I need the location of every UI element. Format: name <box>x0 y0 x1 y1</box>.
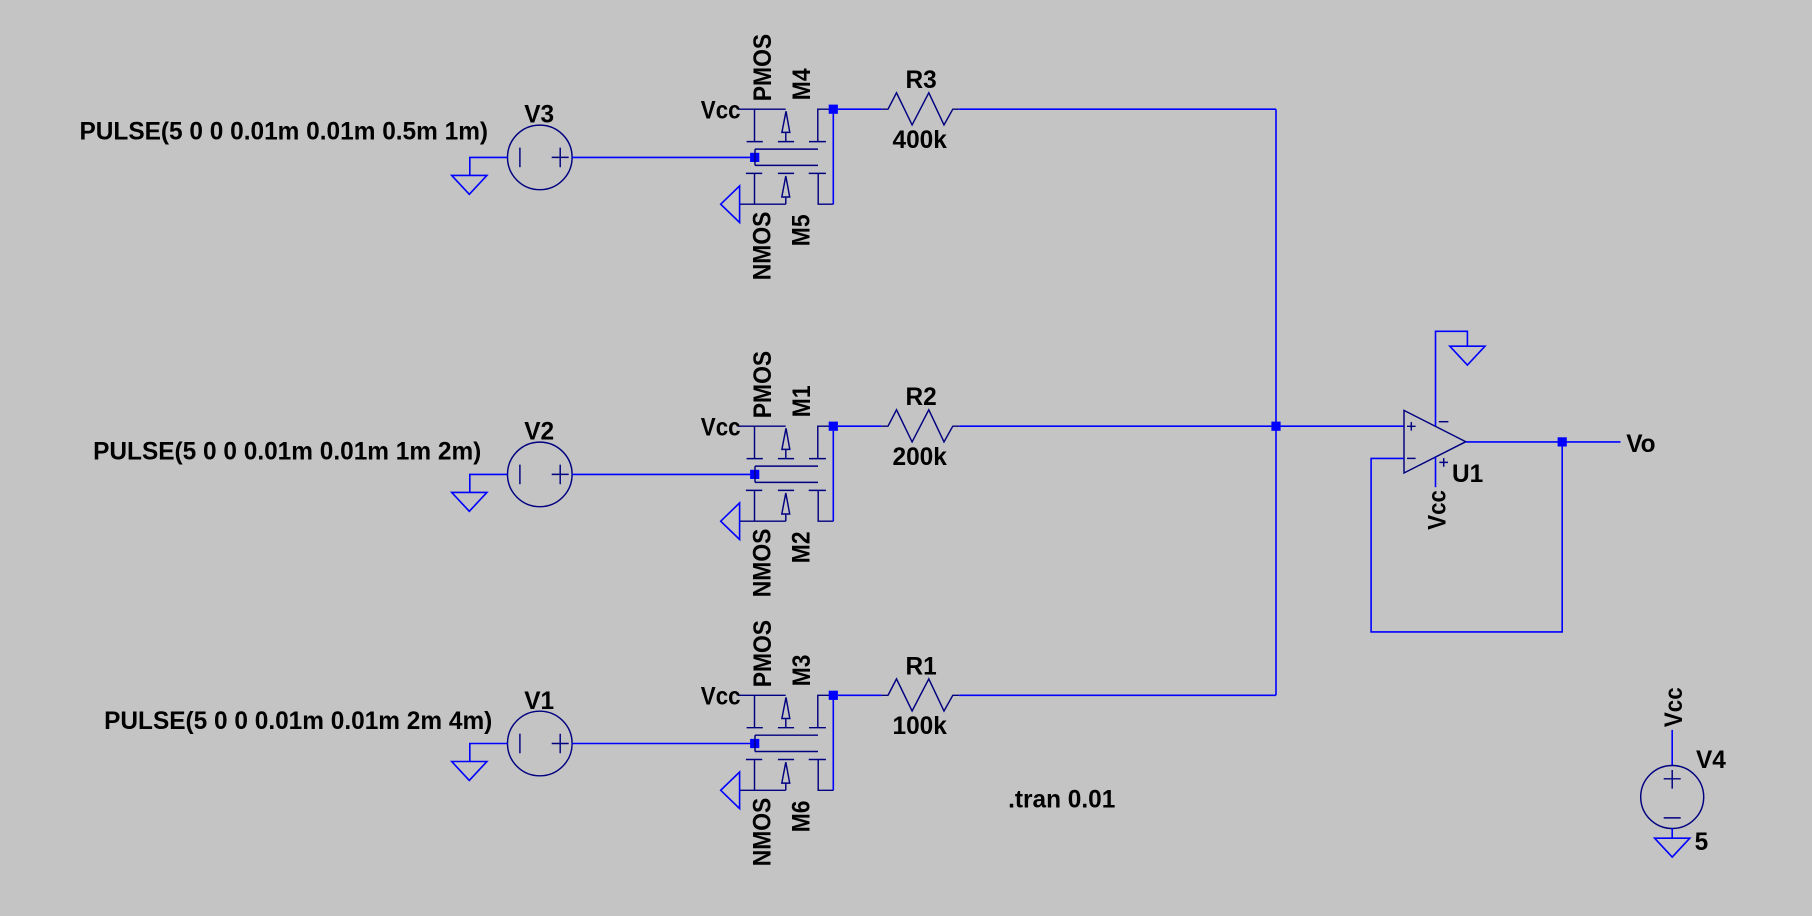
node gate junction of M1/M2 <box>750 470 759 479</box>
wire R1 to bus corner <box>959 694 1276 696</box>
wire op-amp output to Vo <box>1466 441 1621 443</box>
wire V1 plus to gate node <box>572 743 750 745</box>
wire op-amp V+ pin to ground <box>1436 331 1468 426</box>
wire output of inverter M1/M2 <box>832 431 834 522</box>
wire Vcc label to V4 plus <box>1671 730 1673 766</box>
svg-text:M2: M2 <box>787 531 815 563</box>
svg-text:PULSE(5 0 0 0.01m 0.01m 1m 2m): PULSE(5 0 0 0.01m 0.01m 1m 2m) <box>93 437 481 466</box>
svg-text:V2: V2 <box>524 417 554 446</box>
svg-text:Vcc: Vcc <box>1423 490 1452 530</box>
op-amp U1 <box>1404 410 1466 473</box>
svg-text:PULSE(5 0 0 0.01m 0.01m 0.5m 1: PULSE(5 0 0 0.01m 0.01m 0.5m 1m) <box>80 117 489 146</box>
transistor pair M4 PMOS / M5 NMOS <box>738 109 833 204</box>
svg-text:M1: M1 <box>788 385 816 417</box>
ground at V1 <box>452 762 487 781</box>
svg-text:NMOS: NMOS <box>749 529 777 598</box>
svg-text:PMOS: PMOS <box>749 620 777 687</box>
svg-text:Vcc: Vcc <box>701 413 741 442</box>
ground at M2 source <box>721 503 740 540</box>
wire R3 to bus corner <box>959 108 1276 110</box>
svg-text:PULSE(5 0 0 0.01m 0.01m 2m 4m): PULSE(5 0 0 0.01m 0.01m 2m 4m) <box>104 707 492 736</box>
wire output of inverter M3/M6 <box>832 700 834 791</box>
svg-text:M3: M3 <box>788 655 816 687</box>
node gate junction of M4/M5 <box>750 153 759 162</box>
resistor R1 <box>881 679 959 711</box>
svg-text:V4: V4 <box>1696 746 1726 775</box>
ground at V3 <box>452 175 487 194</box>
svg-text:Vcc: Vcc <box>701 96 741 125</box>
resistor R2 <box>881 410 959 442</box>
svg-text:400k: 400k <box>893 125 947 154</box>
svg-text:NMOS: NMOS <box>749 798 777 867</box>
node gate junction of M3/M6 <box>750 739 759 748</box>
svg-text:PMOS: PMOS <box>749 34 777 101</box>
wire output of inverter M4/M5 <box>832 114 834 205</box>
voltage source V4 <box>1641 766 1704 829</box>
svg-text:Vcc: Vcc <box>701 682 741 711</box>
svg-text:R3: R3 <box>906 66 937 95</box>
voltage source V3 PULSE <box>508 125 573 190</box>
ground at M6 source <box>721 772 740 809</box>
resistor R3 <box>881 93 959 125</box>
transistor pair M3 PMOS / M6 NMOS <box>738 695 833 790</box>
svg-text:R2: R2 <box>906 383 937 412</box>
node inverter output junction <box>829 105 838 114</box>
wire R2 to op-amp plus input <box>959 425 1404 427</box>
node output junction <box>1558 437 1567 446</box>
voltage source V1 PULSE <box>508 711 573 776</box>
wire V3 plus to gate node <box>572 156 750 158</box>
wire node to resistor R3 <box>838 108 881 110</box>
transistor pair M1 PMOS / M2 NMOS <box>738 426 833 521</box>
wire feedback output to inverting input <box>1371 442 1562 632</box>
node inverter output junction <box>829 691 838 700</box>
svg-text:PMOS: PMOS <box>749 351 777 418</box>
wire V1 minus to ground <box>470 744 508 762</box>
svg-text:200k: 200k <box>893 442 947 471</box>
svg-text:NMOS: NMOS <box>749 212 777 281</box>
svg-text:Vcc: Vcc <box>1660 687 1689 727</box>
voltage source V2 PULSE <box>508 442 573 507</box>
svg-text:U1: U1 <box>1452 459 1483 488</box>
svg-text:V3: V3 <box>524 100 554 129</box>
wire V3 minus to ground <box>470 157 508 175</box>
node bus junction <box>1271 422 1280 431</box>
ground at V2 <box>452 492 487 511</box>
svg-text:R1: R1 <box>906 652 937 681</box>
wire op-amp V- pin stub <box>1435 457 1437 487</box>
wire bus vertical <box>1275 109 1277 695</box>
wire V2 plus to gate node <box>572 473 750 475</box>
svg-text:5: 5 <box>1695 828 1709 857</box>
svg-text:.tran 0.01: .tran 0.01 <box>1008 785 1115 814</box>
svg-text:V1: V1 <box>524 686 554 715</box>
ground at op-amp V+ <box>1450 346 1485 365</box>
node inverter output junction <box>829 422 838 431</box>
ground at M5 source <box>721 186 740 223</box>
svg-text:100k: 100k <box>893 711 947 740</box>
svg-text:Vo: Vo <box>1626 429 1655 458</box>
wire V2 minus to ground <box>470 474 508 492</box>
svg-text:M6: M6 <box>787 801 815 833</box>
wire V4 minus to ground <box>1671 829 1673 839</box>
wire node to resistor R1 <box>838 694 881 696</box>
ground at V4 <box>1655 838 1690 857</box>
svg-text:M5: M5 <box>787 214 815 246</box>
svg-text:M4: M4 <box>788 68 816 100</box>
wire node to resistor R2 <box>838 425 881 427</box>
